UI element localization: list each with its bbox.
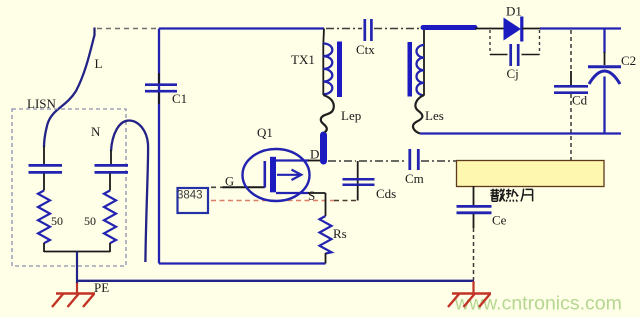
svg-text:TX1: TX1: [291, 52, 315, 67]
svg-text:S: S: [308, 188, 315, 203]
label D1: [506, 3, 522, 18]
label Cd: [572, 93, 588, 108]
resistor 50 (right): [104, 191, 116, 244]
wire: [43, 174, 45, 191]
primary winding: [323, 44, 332, 95]
svg-text:50: 50: [84, 214, 96, 228]
drain bold bar: [320, 135, 327, 161]
capacitor Ce: [473, 186, 475, 205]
inductor Les: [413, 95, 424, 134]
svg-text:Cm: Cm: [405, 171, 424, 186]
wire: [109, 174, 111, 191]
wire loop bottom: [159, 262, 326, 264]
wire: [43, 243, 45, 252]
capacitor C1: [145, 85, 177, 92]
label N: [91, 124, 101, 139]
capacitor Ctx: [365, 19, 372, 41]
svg-text:Cds: Cds: [376, 186, 396, 201]
svg-text:Les: Les: [425, 108, 444, 123]
wire LISN bottom joint: [44, 251, 110, 253]
wire diode out: [522, 28, 540, 30]
svg-text:3843: 3843: [177, 190, 203, 202]
svg-text:LISN: LISN: [27, 96, 57, 111]
label 散热片 (drawn strokes): [491, 189, 533, 202]
label PE: [94, 280, 109, 295]
inductor Lep: [321, 96, 334, 133]
label 50: [51, 214, 63, 228]
ground PE (red): [52, 294, 95, 308]
svg-text:Rs: Rs: [333, 226, 347, 241]
dash-dot Ctx to secondary: [374, 28, 420, 30]
wire PE stem: [76, 252, 78, 285]
bold secondary top wire: [423, 25, 475, 30]
Cj dashed box: [490, 30, 540, 55]
svg-text:50: 50: [51, 214, 63, 228]
wire: [109, 243, 111, 252]
svg-text:Ctx: Ctx: [356, 42, 375, 57]
wire left loop vertical: [158, 29, 160, 264]
core bar primary: [337, 42, 342, 98]
ground (red, right): [448, 294, 491, 308]
dash-dot to Ctx: [326, 28, 362, 30]
label Rs: [333, 226, 347, 241]
wire dashed top-left: [97, 28, 159, 30]
label Les: [425, 108, 444, 123]
wire secondary top rail: [540, 27, 621, 29]
label TX1: [291, 52, 315, 67]
svg-text:www.cntronics.com: www.cntronics.com: [454, 293, 622, 315]
diode D1: [504, 18, 522, 41]
label 50: [84, 214, 96, 228]
capacitor (LISN right): [95, 165, 129, 172]
wire gate dashed: [211, 186, 224, 188]
label C2: [621, 53, 636, 68]
svg-text:PE: PE: [94, 280, 109, 295]
wire L input curve: [44, 35, 95, 147]
label 3843: [177, 190, 203, 202]
dash-dot drain line: [328, 160, 356, 162]
svg-text:N: N: [91, 124, 101, 139]
label Cm: [405, 171, 424, 186]
label Ctx: [356, 42, 375, 57]
wire: [110, 150, 112, 165]
capacitor C2: [603, 29, 605, 54]
label Cj: [507, 66, 519, 81]
transformer TX1 primary wire: [322, 29, 325, 96]
core bar secondary: [408, 42, 413, 97]
box 3843: [178, 188, 209, 213]
resistor Rs: [320, 216, 332, 254]
capacitor Cj: [511, 44, 519, 66]
LISN dashed box: [12, 109, 126, 266]
wire: [323, 94, 324, 96]
capacitor Cd: [570, 30, 572, 72]
transistor Q1: [243, 149, 310, 201]
watermark: [454, 293, 622, 315]
svg-text:L: L: [95, 56, 103, 71]
label C1: [172, 91, 187, 106]
wire red drop (right ground): [472, 281, 474, 293]
heat sink: [457, 161, 605, 187]
wire L cap lead: [43, 146, 45, 165]
secondary wire: [423, 29, 425, 96]
svg-text:C2: C2: [621, 53, 636, 68]
svg-text:Ce: Ce: [492, 213, 507, 228]
capacitor Cm: [410, 149, 419, 170]
wire secondary bottom rail: [420, 132, 621, 134]
label L: [95, 56, 103, 71]
label D: [310, 147, 319, 162]
svg-text:Cd: Cd: [572, 93, 588, 108]
label Q1: [257, 125, 273, 140]
label LISN: [27, 96, 57, 111]
svg-text:Q1: Q1: [257, 125, 273, 140]
svg-text:C1: C1: [172, 91, 187, 106]
wire S drop: [325, 193, 327, 216]
node L tick: [93, 28, 95, 37]
label G: [225, 175, 234, 189]
label Cds: [376, 186, 396, 201]
wire: [325, 253, 327, 264]
secondary winding: [416, 45, 424, 95]
wire to diode: [475, 28, 504, 30]
label S: [308, 188, 315, 203]
capacitor Cds: [357, 161, 359, 186]
svg-text:Lep: Lep: [341, 108, 361, 123]
red control dashed: [211, 200, 336, 202]
wire PE rail: [77, 280, 474, 282]
svg-text:G: G: [225, 175, 234, 189]
label Ce: [492, 213, 507, 228]
svg-text:D: D: [310, 147, 319, 162]
label Lep: [341, 108, 361, 123]
resistor 50 (left): [38, 191, 50, 244]
svg-text:Cj: Cj: [507, 66, 519, 81]
svg-text:D1: D1: [506, 3, 522, 18]
wire top rail: [159, 27, 324, 29]
wire N arch: [111, 121, 148, 263]
capacitor (LISN left): [29, 165, 63, 172]
